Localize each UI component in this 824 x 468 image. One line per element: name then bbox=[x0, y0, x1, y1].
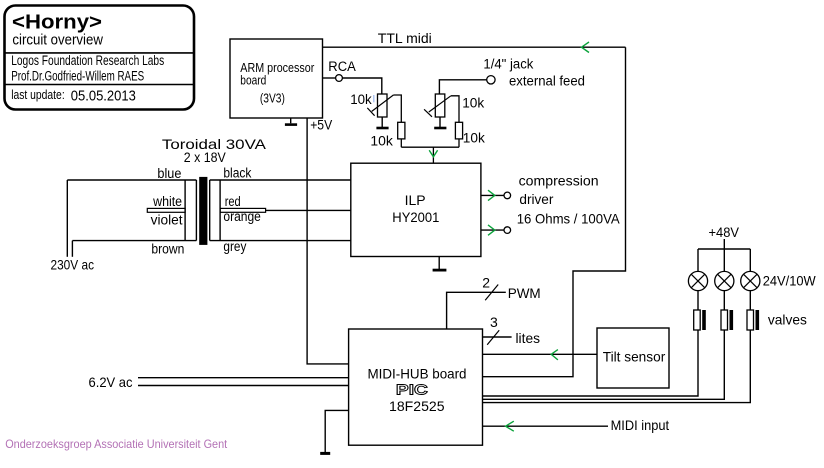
green arrow output 2 bbox=[488, 225, 495, 235]
wire lamp1 to valve1 bbox=[697, 291, 699, 310]
cursor artifact bbox=[373, 95, 375, 102]
svg-text:violet: violet bbox=[151, 213, 183, 228]
svg-text:black: black bbox=[223, 166, 251, 181]
jack connector J2 bbox=[487, 76, 495, 84]
title block frame bbox=[5, 6, 195, 110]
green arrow on TTL midi wire bbox=[582, 42, 590, 53]
svg-text:PWM: PWM bbox=[508, 285, 541, 301]
svg-text:05.05.2013: 05.05.2013 bbox=[71, 87, 136, 104]
ground pot P2 bbox=[434, 117, 446, 129]
svg-text:PIC: PIC bbox=[396, 383, 429, 399]
ground ILP bbox=[433, 257, 447, 272]
MIDI-HUB board U2 bbox=[349, 329, 483, 445]
lamp L2 bbox=[715, 271, 734, 290]
svg-text:230V ac: 230V ac bbox=[51, 256, 95, 272]
wire PWM output bbox=[447, 292, 506, 329]
wire lites output bbox=[483, 336, 512, 338]
output terminal 2 bbox=[504, 227, 511, 234]
green arrow into ILP bbox=[429, 150, 437, 157]
resistor R2 10k bbox=[455, 122, 462, 139]
svg-text:10k: 10k bbox=[462, 95, 485, 111]
svg-text:white: white bbox=[152, 194, 182, 209]
svg-text:(3V3): (3V3) bbox=[260, 91, 285, 106]
svg-text:18F2525: 18F2525 bbox=[389, 398, 445, 414]
wire lamp3 to valve3 bbox=[749, 291, 751, 310]
output terminal 1 bbox=[504, 192, 511, 199]
ground MIDI-HUB bbox=[320, 410, 348, 455]
wire TTL midi horizontal bbox=[323, 46, 626, 48]
potentiometer P1 10k bbox=[367, 94, 393, 117]
wire to ILP input bbox=[432, 147, 434, 163]
svg-text:+48V: +48V bbox=[709, 224, 740, 240]
amplifier ILP HY2001 bbox=[351, 163, 481, 256]
wire summing bus bbox=[401, 146, 459, 148]
lamp L3 bbox=[741, 271, 760, 290]
wire lamp feed 2 bbox=[723, 249, 725, 272]
wire 230V lead 2 bbox=[71, 241, 73, 257]
ground pot P1 bbox=[376, 117, 388, 129]
svg-text:10k: 10k bbox=[370, 132, 393, 148]
svg-text:<Horny>: <Horny> bbox=[12, 11, 102, 34]
wire RCA to pot P1 bbox=[343, 78, 382, 94]
wire valve drive 1 bbox=[483, 330, 699, 396]
svg-text:RCA: RCA bbox=[328, 59, 356, 74]
wire red-orange to ILP bbox=[266, 209, 351, 211]
svg-text:Tilt sensor: Tilt sensor bbox=[603, 349, 666, 365]
svg-text:brown: brown bbox=[151, 241, 184, 256]
green arrow output 1 bbox=[488, 190, 495, 200]
valve V2 bbox=[721, 310, 733, 330]
wire 230V lead 1 bbox=[66, 180, 68, 257]
wire tilt sensor input bbox=[483, 353, 598, 355]
svg-text:Prof.Dr.Godfried-Willem RAES: Prof.Dr.Godfried-Willem RAES bbox=[11, 69, 144, 84]
wire black secondary top bbox=[210, 179, 351, 181]
wire P2 wiper to R2 bbox=[451, 96, 459, 123]
wire R1 to summing node bbox=[400, 139, 402, 147]
Tilt sensor box bbox=[597, 328, 669, 388]
wire +48V bus bbox=[698, 248, 750, 250]
svg-text:6.2V ac: 6.2V ac bbox=[89, 374, 133, 390]
svg-text:lites: lites bbox=[516, 330, 541, 346]
wire P1 wiper to R1 bbox=[393, 95, 401, 122]
svg-text:Logos Foundation Research Labs: Logos Foundation Research Labs bbox=[11, 53, 164, 68]
svg-text:2 x 18V: 2 x 18V bbox=[184, 149, 227, 165]
valve V3 bbox=[747, 310, 759, 330]
svg-text:3: 3 bbox=[490, 314, 498, 330]
wire valve drive 2 bbox=[483, 330, 725, 399]
svg-text:red: red bbox=[225, 194, 241, 209]
wire TTL midi vertical drop bbox=[483, 47, 626, 377]
svg-text:circuit overview: circuit overview bbox=[12, 33, 103, 49]
wire blue primary top bbox=[67, 179, 196, 181]
transformer secondary winding bbox=[210, 180, 220, 241]
lamp L1 bbox=[688, 271, 707, 290]
svg-text:ILP: ILP bbox=[405, 192, 426, 208]
wire ARM RCA output bbox=[323, 77, 336, 79]
lites bus slash bbox=[487, 330, 499, 345]
title block divider 2 bbox=[4, 84, 194, 86]
RCA connector J1 bbox=[336, 75, 343, 82]
svg-text:MIDI-HUB board: MIDI-HUB board bbox=[368, 365, 467, 381]
svg-text:10k: 10k bbox=[350, 91, 372, 107]
wire speaker output 2 bbox=[481, 229, 504, 231]
wire valve drive 3 bbox=[483, 330, 751, 403]
wire grey secondary bottom bbox=[210, 240, 351, 242]
wire pair red-orange bbox=[220, 208, 266, 212]
svg-text:1/4" jack: 1/4" jack bbox=[483, 57, 533, 72]
wire pair white-violet bbox=[147, 208, 185, 212]
svg-text:board: board bbox=[240, 73, 266, 88]
svg-text:last update:: last update: bbox=[11, 87, 64, 102]
green arrow MIDI input bbox=[506, 421, 514, 431]
wire lamp feed 3 bbox=[749, 249, 751, 272]
svg-text:2: 2 bbox=[482, 275, 490, 291]
title block divider 1 bbox=[4, 52, 194, 54]
ARM processor board U1 bbox=[230, 39, 323, 118]
svg-text:blue: blue bbox=[157, 166, 181, 181]
svg-text:driver: driver bbox=[519, 191, 553, 207]
svg-text:grey: grey bbox=[223, 239, 246, 254]
resistor R1 10k bbox=[398, 122, 405, 139]
svg-text:+5V: +5V bbox=[310, 117, 332, 132]
wire +48V stub bbox=[723, 239, 725, 249]
svg-text:external feed: external feed bbox=[509, 74, 585, 89]
wire lamp2 to valve2 bbox=[723, 291, 725, 310]
label compression driver bbox=[517, 173, 621, 227]
svg-text:10k: 10k bbox=[463, 130, 486, 146]
svg-text:24V/10W: 24V/10W bbox=[763, 274, 816, 289]
wire 1/4 jack feed bbox=[439, 80, 486, 94]
wire R2 to summing node bbox=[458, 139, 460, 147]
wire speaker output 1 bbox=[481, 194, 504, 196]
PWM bus slash bbox=[485, 285, 498, 301]
transformer T1 core bbox=[199, 177, 207, 245]
svg-text:valves: valves bbox=[768, 311, 807, 327]
wire +5V net bbox=[307, 118, 349, 364]
svg-text:orange: orange bbox=[223, 209, 261, 224]
svg-text:Onderzoeksgroep Associatie Uni: Onderzoeksgroep Associatie Universiteit … bbox=[5, 437, 228, 451]
svg-text:MIDI input: MIDI input bbox=[611, 417, 670, 433]
svg-text:compression: compression bbox=[519, 173, 599, 189]
wire brown primary bottom bbox=[72, 240, 196, 242]
transformer primary winding bbox=[185, 180, 196, 241]
green arrow tilt wire bbox=[551, 350, 558, 360]
wire MIDI input bbox=[483, 425, 609, 427]
ground ARM board bbox=[285, 118, 297, 126]
wire 6.2V ac line 1 bbox=[138, 377, 349, 379]
svg-text:TTL midi: TTL midi bbox=[378, 30, 432, 46]
wire 6.2V ac line 2 bbox=[138, 385, 349, 387]
svg-text:16 Ohms / 100VA: 16 Ohms / 100VA bbox=[517, 211, 621, 227]
wire lamp feed 1 bbox=[697, 249, 699, 272]
svg-text:HY2001: HY2001 bbox=[392, 209, 439, 225]
potentiometer P2 10k bbox=[424, 94, 451, 117]
valve V1 bbox=[694, 310, 706, 330]
